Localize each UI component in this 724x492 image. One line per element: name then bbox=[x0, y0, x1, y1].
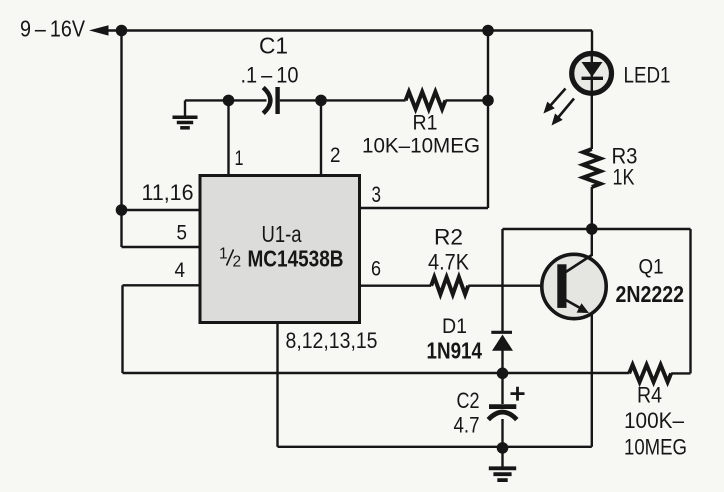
svg-text:1: 1 bbox=[219, 246, 228, 263]
svg-text:3: 3 bbox=[372, 182, 382, 207]
svg-text:Q1: Q1 bbox=[639, 255, 664, 279]
svg-text:R2: R2 bbox=[434, 224, 463, 249]
svg-text:6: 6 bbox=[371, 257, 381, 281]
svg-text:D1: D1 bbox=[442, 314, 467, 338]
svg-text:4: 4 bbox=[175, 258, 186, 282]
svg-text:LED1: LED1 bbox=[624, 62, 671, 87]
svg-text:R1: R1 bbox=[413, 112, 438, 135]
svg-text:8,12,13,15: 8,12,13,15 bbox=[286, 328, 378, 353]
svg-text:U1-a: U1-a bbox=[262, 221, 302, 247]
svg-text:1K: 1K bbox=[613, 165, 635, 190]
svg-text:1N914: 1N914 bbox=[427, 337, 483, 363]
svg-text:10K–10MEG: 10K–10MEG bbox=[362, 134, 480, 158]
svg-text:11,16: 11,16 bbox=[142, 180, 194, 205]
svg-text:9 – 16V: 9 – 16V bbox=[20, 16, 86, 42]
svg-text:C1: C1 bbox=[259, 33, 288, 59]
svg-text:1: 1 bbox=[235, 146, 244, 170]
svg-text:.1 – 10: .1 – 10 bbox=[241, 63, 299, 88]
svg-text:100K–: 100K– bbox=[624, 408, 685, 433]
svg-text:2: 2 bbox=[233, 254, 242, 271]
svg-text:10MEG: 10MEG bbox=[624, 435, 687, 460]
svg-text:4.7K: 4.7K bbox=[428, 249, 469, 274]
svg-text:C2: C2 bbox=[457, 388, 480, 413]
svg-text:4.7: 4.7 bbox=[454, 413, 480, 438]
svg-text:2N2222: 2N2222 bbox=[616, 281, 685, 307]
svg-text:5: 5 bbox=[177, 221, 188, 245]
svg-text:MC14538B: MC14538B bbox=[248, 245, 344, 271]
svg-text:2: 2 bbox=[330, 143, 341, 167]
svg-text:R4: R4 bbox=[637, 383, 662, 408]
